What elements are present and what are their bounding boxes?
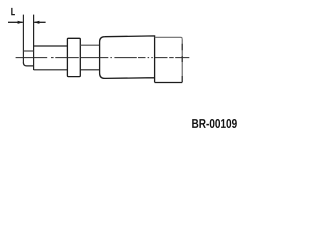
flange rectangle (67, 38, 80, 76)
terminal cap bottom edge with rounded corner (23, 63, 33, 66)
dimension line right tail (34, 21, 45, 23)
dimension arrow right (pointing left) (34, 21, 40, 24)
right end section right edge (thin continuous) (181, 39, 183, 82)
dimension line left tail (8, 21, 23, 23)
center line (dash-dot axis) (16, 57, 190, 59)
dimension arrow left (pointing right) (18, 21, 24, 24)
right end section right edge darker dashes (181, 44, 183, 83)
extension line B / shaft left edge (33, 15, 35, 70)
shaft top edge (34, 45, 68, 47)
extension line A / cap left edge (22, 15, 24, 64)
neck top edge (80, 44, 100, 46)
right end section top edge (155, 37, 183, 39)
right end section bottom edge (155, 82, 183, 84)
terminal cap top edge (23, 50, 33, 52)
dimension label L (12, 8, 15, 15)
part code label BR-00109 (192, 119, 237, 128)
neck bottom edge (80, 69, 100, 71)
main body with rounded left corners (100, 36, 155, 83)
shaft bottom edge (34, 69, 68, 71)
